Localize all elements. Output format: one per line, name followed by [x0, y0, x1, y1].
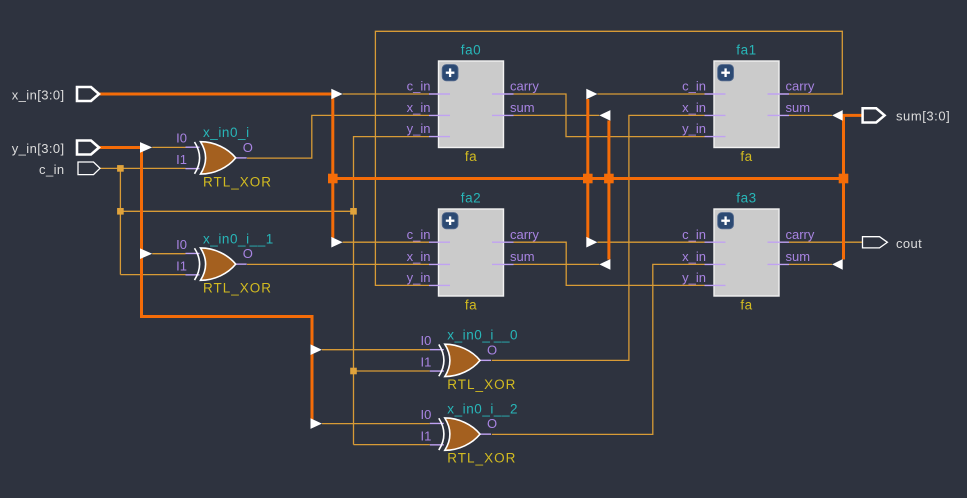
xor gate x_in0_i__2 body [445, 418, 480, 450]
fa0 pin label y_in [407, 121, 431, 136]
x_in0_i pin label I1 [176, 152, 187, 167]
fa1 type label fa [740, 149, 752, 164]
fa0 input pin stub y_in [429, 136, 450, 138]
fa3 input pin stub y_in [705, 284, 726, 286]
svg-text:sum: sum [786, 249, 811, 264]
x_in0_i type label RTL_XOR [203, 174, 272, 189]
bus y_in[3:0] from port [100, 148, 313, 420]
svg-text:x_in[3:0]: x_in[3:0] [12, 88, 65, 103]
arrow bus tap to fa1 c_in [586, 89, 597, 100]
svg-text:I0: I0 [420, 407, 431, 422]
svg-text:fa: fa [740, 298, 752, 313]
svg-text:x_in: x_in [682, 249, 706, 264]
x_in0_i__1 type label RTL_XOR [203, 281, 272, 296]
x_in0_i__1 pin label O [243, 246, 253, 261]
x_in0_i__0 input pin stub I0 [430, 349, 444, 351]
bus vertical x=587.8 carry taps [586, 99, 589, 238]
x_in0_i__2 type label RTL_XOR [447, 451, 516, 466]
wire xor x_in0_i__1 O to fa2 x_in [247, 263, 429, 265]
x_in0_i__2 pin label I1 [420, 428, 431, 443]
input port y_in[3:0] symbol [77, 141, 99, 155]
bus junction at x=843.5 y=178.5 [839, 174, 849, 184]
fa2 output pin stub sum [492, 263, 514, 265]
svg-text:fa: fa [465, 298, 477, 313]
fa3 pin label y_in [682, 270, 706, 285]
fa0 input pin stub c_in [429, 93, 450, 95]
svg-text:carry: carry [786, 79, 815, 94]
fa0 expand + button [442, 65, 458, 81]
x_in0_i__2 input pin stub I1 [430, 444, 444, 446]
x_in0_i__1 pin label I1 [176, 258, 187, 273]
fa1 pin label c_in [682, 79, 706, 94]
fa3 pin label c_in [682, 227, 706, 242]
bus junction at x=608.9 y=178.5 [604, 174, 614, 184]
bus junction at x=332.8 y=178.5 [328, 174, 338, 184]
svg-text:carry: carry [510, 79, 539, 94]
wire c_in net to xor x_in0_i__2 I1 [354, 444, 430, 446]
svg-text:x_in: x_in [407, 249, 431, 264]
x_in0_i__0 output pin stub O [480, 359, 491, 361]
fa3 input pin stub x_in [705, 263, 726, 265]
wire x_in bit tap to fa0 c_in [343, 93, 429, 95]
bus horizontal interconnect y=178.5 [333, 177, 844, 180]
svg-text:RTL_XOR: RTL_XOR [203, 281, 272, 296]
module fa2 (fa) block body [439, 209, 504, 296]
fa3 pin label carry [786, 227, 815, 242]
fa2 input pin stub x_in [429, 263, 450, 265]
svg-text:y_in: y_in [682, 270, 706, 285]
wire c_in net vertical x=353.5 down [353, 211, 355, 444]
fa3 instance name label [736, 191, 756, 206]
bus vertical x=608.9 sum collect [607, 121, 610, 260]
wire c_in net to xor x_in0_i__0 I1 [354, 370, 430, 372]
wire y_in bit tap to xor x_in0_i I0 [152, 146, 185, 148]
wire bus tap to fa3 c_in [597, 241, 704, 243]
svg-text:fa0: fa0 [461, 43, 481, 58]
svg-text:c_in: c_in [407, 79, 431, 94]
wire fa0 sum to sum bus [514, 114, 600, 116]
fa1 expand + button [718, 65, 734, 81]
x_in0_i__1 input pin stub I0 [186, 252, 200, 254]
wire xor x_in0_i O to fa0 x_in [247, 115, 429, 158]
fa2 expand + button [442, 213, 458, 229]
svg-text:c_in: c_in [39, 162, 64, 177]
svg-text:carry: carry [510, 227, 539, 242]
svg-text:cout: cout [896, 236, 922, 251]
arrow fa2 sum into bus [599, 259, 610, 270]
svg-text:x_in: x_in [682, 100, 706, 115]
xor gate x_in0_i__1 body [201, 248, 236, 280]
x_in0_i__0 pin label I0 [420, 333, 431, 348]
output port cout symbol [863, 237, 888, 248]
arrow fa3 sum into bus [832, 259, 843, 270]
fa1 pin label carry [786, 79, 815, 94]
wire x_in bit tap to fa2 c_in [343, 241, 429, 243]
fa3 type label fa [740, 298, 752, 313]
output port cout label [896, 236, 922, 251]
fa1 instance name label [736, 43, 756, 58]
wire fa1 carry to fa2 y_in [375, 31, 842, 285]
arrow fa0 sum into bus [599, 110, 610, 121]
fa2 output pin stub carry [492, 241, 514, 243]
x_in0_i__2 instance name label [447, 401, 518, 416]
input port x_in[3:0] symbol [77, 87, 99, 101]
module fa3 (fa) block body [714, 209, 779, 296]
module fa1 (fa) block body [714, 61, 779, 148]
x_in0_i pin label I0 [176, 131, 187, 146]
svg-text:I1: I1 [420, 428, 431, 443]
fa1 input pin stub y_in [705, 136, 726, 138]
arrow y_in tap to x_in0_i__2 I0 [311, 418, 322, 429]
wire bus tap to fa1 c_in [597, 93, 704, 95]
x_in0_i__0 type label RTL_XOR [447, 377, 516, 392]
fa0 type label fa [465, 149, 477, 164]
wire y_in bit tap to xor x_in0_i__1 I0 [152, 253, 185, 255]
x_in0_i pin label O [243, 140, 253, 155]
wire fa2 carry to fa3 y_in [514, 242, 705, 285]
svg-text:fa3: fa3 [736, 191, 756, 206]
x_in0_i output pin stub O [236, 157, 247, 159]
x_in0_i__2 pin label O [487, 416, 497, 431]
xor gate x_in0_i leading arc [195, 142, 200, 174]
fa0 output pin stub carry [492, 93, 514, 95]
fa0 input pin stub x_in [429, 114, 450, 116]
fa0 instance name label [461, 43, 481, 58]
xor gate x_in0_i__0 leading arc [439, 344, 444, 376]
junction c_in net at port fanout [117, 165, 124, 172]
fa3 input pin stub c_in [705, 241, 726, 243]
svg-text:y_in: y_in [407, 270, 431, 285]
svg-text:y_in[3:0]: y_in[3:0] [12, 141, 65, 156]
junction c_in net x=120 y=211 [117, 208, 124, 215]
xor gate x_in0_i body [201, 142, 236, 174]
svg-text:fa2: fa2 [461, 191, 481, 206]
x_in0_i__0 pin label O [487, 342, 497, 357]
arrow x_in tap to fa2 c_in [331, 237, 342, 248]
fa1 output pin stub carry [768, 93, 790, 95]
junction c_in net x=353.5 y=371 [350, 368, 357, 375]
svg-text:sum: sum [510, 249, 535, 264]
svg-text:sum: sum [786, 100, 811, 115]
fa2 pin label x_in [407, 249, 431, 264]
x_in0_i instance name label [203, 125, 250, 140]
svg-text:carry: carry [786, 227, 815, 242]
fa2 instance name label [461, 191, 481, 206]
svg-text:sum[3:0]: sum[3:0] [896, 108, 950, 123]
x_in0_i__0 input pin stub I1 [430, 370, 444, 372]
fa3 expand + button [718, 213, 734, 229]
svg-text:I1: I1 [176, 258, 187, 273]
svg-text:fa: fa [465, 149, 477, 164]
fa0 pin label x_in [407, 100, 431, 115]
wire c_in net horizontal y=211.3 [120, 210, 353, 212]
bus junction at x=587.8 y=178.5 [583, 174, 593, 184]
fa1 pin label sum [786, 100, 811, 115]
svg-text:I0: I0 [420, 333, 431, 348]
svg-text:c_in: c_in [407, 227, 431, 242]
bus sum[3:0] to output port [844, 115, 862, 259]
svg-text:O: O [487, 416, 497, 431]
fa0 pin label sum [510, 100, 535, 115]
arrow fa1 sum into bus [832, 110, 843, 121]
svg-text:I0: I0 [176, 131, 187, 146]
wire y_in bit tap to xor x_in0_i__0 I0 [322, 349, 430, 351]
fa0 pin label carry [510, 79, 539, 94]
x_in0_i__1 pin label I0 [176, 237, 187, 252]
fa1 pin label y_in [682, 121, 706, 136]
fa1 input pin stub c_in [705, 93, 726, 95]
module fa0 (fa) block body [439, 61, 504, 148]
x_in0_i__2 pin label I0 [420, 407, 431, 422]
svg-text:x_in0_i__2: x_in0_i__2 [447, 401, 518, 416]
fa0 output pin stub sum [492, 114, 514, 116]
svg-text:RTL_XOR: RTL_XOR [447, 377, 516, 392]
fa3 output pin stub sum [768, 263, 790, 265]
svg-text:I1: I1 [176, 152, 187, 167]
svg-text:O: O [243, 140, 253, 155]
arrow y_in tap to x_in0_i__1 I0 [140, 248, 152, 259]
xor gate x_in0_i__0 body [445, 344, 480, 376]
output port sum[3:0] symbol [863, 108, 885, 122]
fa0 pin label c_in [407, 79, 431, 94]
fa2 pin label y_in [407, 270, 431, 285]
x_in0_i__1 input pin stub I1 [186, 274, 200, 276]
svg-text:y_in: y_in [682, 121, 706, 136]
wire c_in net riser to fa0 y_in [354, 137, 430, 212]
wire xor x_in0_i__0 O to fa1 x_in [492, 115, 705, 360]
x_in0_i__0 instance name label [447, 327, 518, 342]
wire xor x_in0_i__2 O to fa3 x_in [492, 264, 705, 434]
fa1 output pin stub sum [768, 114, 790, 116]
svg-text:I1: I1 [420, 355, 431, 370]
x_in0_i__1 output pin stub O [236, 263, 247, 265]
x_in0_i input pin stub I1 [186, 168, 200, 170]
fa1 input pin stub x_in [705, 114, 726, 116]
xor gate x_in0_i__2 leading arc [439, 418, 444, 450]
arrow bus tap to fa3 c_in [586, 237, 597, 248]
fa2 pin label sum [510, 249, 535, 264]
wire c_in net vertical x=120 down [119, 168, 121, 274]
svg-text:y_in: y_in [407, 121, 431, 136]
svg-text:x_in: x_in [407, 100, 431, 115]
wire c_in net: port to xor x_in0_i I1 [100, 167, 186, 169]
svg-text:c_in: c_in [682, 79, 706, 94]
fa1 pin label x_in [682, 100, 706, 115]
svg-text:sum: sum [510, 100, 535, 115]
arrow y_in tap to x_in0_i I0 [140, 142, 152, 153]
x_in0_i input pin stub I0 [186, 146, 200, 148]
arrow y_in tap to x_in0_i__0 I0 [311, 344, 322, 355]
fa2 type label fa [465, 298, 477, 313]
x_in0_i__2 output pin stub O [480, 433, 491, 435]
wire fa3 carry to cout port [789, 241, 863, 243]
fa2 input pin stub y_in [429, 284, 450, 286]
wire fa0 carry to fa1 y_in [514, 94, 705, 137]
svg-text:O: O [243, 246, 253, 261]
arrow x_in tap to fa0 c_in [331, 89, 342, 100]
bus x_in[3:0] from port [100, 94, 333, 238]
input port c_in label [39, 162, 64, 177]
input port x_in[3:0] label [12, 88, 65, 103]
fa2 pin label c_in [407, 227, 431, 242]
wire c_in net to xor x_in0_i__1 I1 [120, 274, 185, 276]
wire fa3 sum to sum bus [789, 263, 832, 265]
output port sum[3:0] label [896, 108, 950, 123]
fa2 input pin stub c_in [429, 241, 450, 243]
input port c_in symbol [78, 162, 100, 175]
wire fa1 sum to sum bus [789, 114, 832, 116]
svg-text:fa1: fa1 [736, 43, 756, 58]
x_in0_i__0 pin label I1 [420, 355, 431, 370]
svg-text:O: O [487, 342, 497, 357]
x_in0_i__2 input pin stub I0 [430, 422, 444, 424]
fa3 pin label sum [786, 249, 811, 264]
wire fa2 sum to sum bus [514, 263, 600, 265]
junction c_in net x=353.5 y=211 [350, 208, 357, 215]
fa3 pin label x_in [682, 249, 706, 264]
x_in0_i__1 instance name label [203, 231, 274, 246]
svg-text:fa: fa [740, 149, 752, 164]
fa2 pin label carry [510, 227, 539, 242]
svg-text:x_in0_i__1: x_in0_i__1 [203, 231, 274, 246]
svg-text:x_in0_i__0: x_in0_i__0 [447, 327, 518, 342]
svg-text:x_in0_i: x_in0_i [203, 125, 250, 140]
fa3 output pin stub carry [768, 241, 790, 243]
svg-text:I0: I0 [176, 237, 187, 252]
svg-text:c_in: c_in [682, 227, 706, 242]
wire y_in bit tap to xor x_in0_i__2 I0 [322, 423, 430, 425]
svg-text:RTL_XOR: RTL_XOR [447, 451, 516, 466]
xor gate x_in0_i__1 leading arc [195, 248, 200, 280]
svg-text:RTL_XOR: RTL_XOR [203, 174, 272, 189]
input port y_in[3:0] label [12, 141, 65, 156]
